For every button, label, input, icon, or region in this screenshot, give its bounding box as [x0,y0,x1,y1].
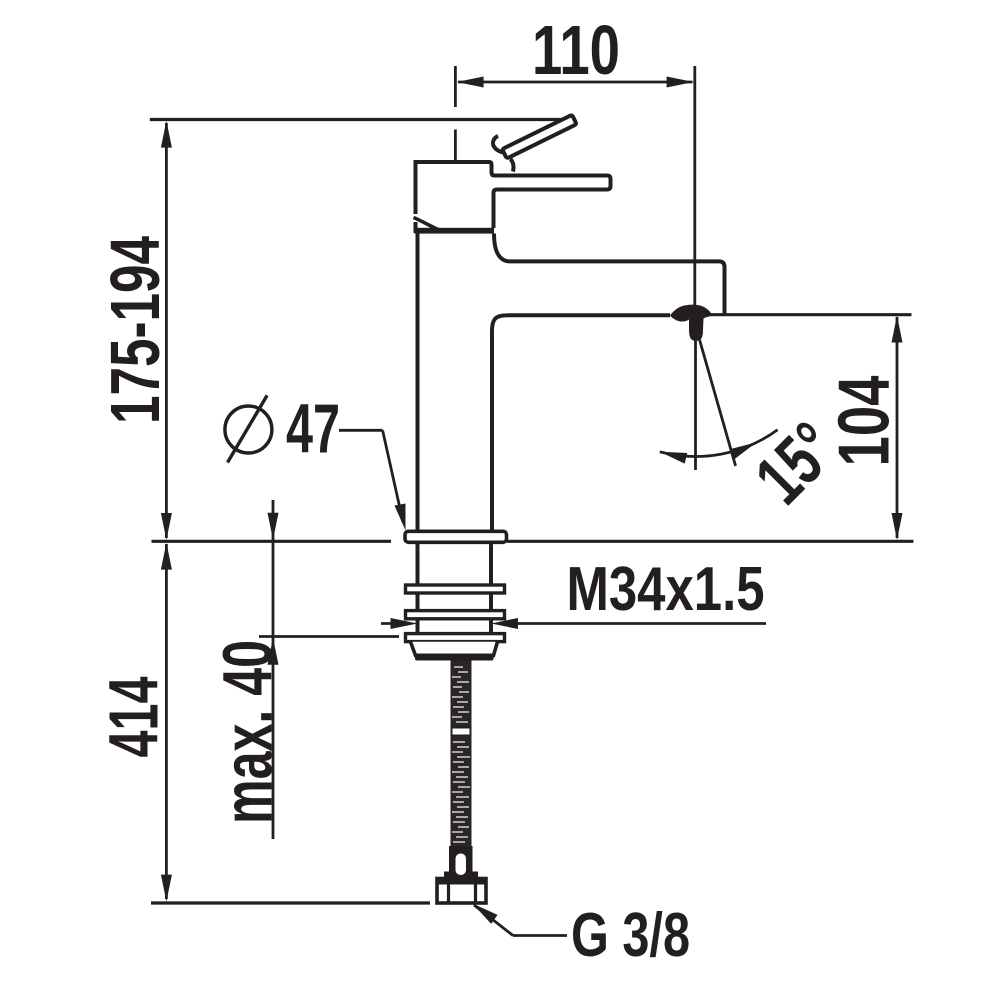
flexible hose lower section [451,736,472,846]
dimension 104 bottom arrow [892,513,903,540]
15deg swivel vertical reference line [694,321,697,470]
dimension 175-194 top arrow [161,121,172,148]
dimension 110 right extension line (spout outlet axis) [693,66,696,306]
handle joint hook curve [493,136,504,153]
faucet head block bottom thick bar [415,228,495,234]
diameter 47 leader slant [383,430,403,522]
15deg arc [660,430,778,457]
dimension 110 left extension line upper segment [454,66,457,107]
M34x1.5 left arrow line [381,622,405,625]
dimension 175-194 bottom arrow [161,513,172,540]
fixing nut bottom bar [415,654,494,661]
dimension max.40 vertical line [272,500,275,839]
dimension 414 bottom arrow [161,875,172,902]
G3/8 union nut top thick edge [437,879,486,885]
dimension 175-194 line [165,123,168,538]
fixing nut outline [411,642,498,656]
M34x1.5 left arrow [391,618,418,629]
G 3/8 leader horizontal line [513,934,567,937]
M34x1.5 right arrow line [503,622,766,625]
base flange [405,531,507,542]
dimension 110 left arrow [457,77,484,88]
diameter 47 leader arrow [395,504,406,531]
dimension max.40 lower arrow (points up to thread end tick) [268,638,279,665]
15deg arc left arrow [658,446,687,463]
shank left edge [416,542,420,640]
svg-text:G 3/8: G 3/8 [571,901,690,970]
G3/8 union nut left facet line [447,884,450,902]
faucet head block outline [416,162,611,228]
svg-text:M34x1.5: M34x1.5 [567,555,765,624]
G 3/8 leader slant line [474,905,513,936]
mounting surface line left segment [152,540,392,543]
svg-text:414: 414 [95,676,173,757]
hose end connector slot [456,854,467,876]
dimension 110 right arrow [667,77,694,88]
thread ring 1 [406,585,505,593]
flexible hose upper section [451,661,472,728]
faucet head block left edge lower [414,222,418,233]
15deg tilted jet line [700,340,736,466]
dimension max.40 upper arrow (points down to mounting surface) [268,513,279,540]
faucet head cover seam curve [414,218,455,232]
dimension 104 line [896,317,899,538]
faucet head block left edge upper [414,160,418,214]
connector right tab [472,872,478,880]
spout underside reference line to 104 dimension [710,313,912,316]
aerator outlet (solid) [670,305,713,341]
mounting surface line right segment [507,540,914,543]
spout underside line [492,315,670,331]
diameter 47 leader horizontal [339,429,383,432]
G3/8 union nut right facet line [474,884,477,902]
diameter 47 slash [228,395,268,462]
column left edge [416,234,420,532]
thread ring 3 [406,634,505,642]
thread ring 2 [406,611,505,619]
spout upper outline [494,234,725,314]
dimension 110 line [458,81,693,84]
flexible hose joint [452,728,471,736]
top reference line (overall height datum at handle top) [150,118,561,121]
shank right edge [489,542,493,640]
dimension 110 left extension line lower segment [454,130,457,161]
diameter 47 circle symbol [225,406,272,453]
bottom reference line (hose end datum) [151,901,430,904]
hose end connector body [449,846,473,879]
svg-text:47: 47 [286,390,340,468]
dimension max.40 tick line at thread end [259,635,399,638]
G3/8 union nut [437,879,486,904]
G 3/8 leader arrow [469,899,497,924]
connector left tab [444,872,450,880]
15deg arc right arrow [730,437,759,459]
svg-text:110: 110 [532,11,620,89]
svg-text:max. 40: max. 40 [209,640,287,824]
svg-text:175-194: 175-194 [96,236,174,424]
dimension 414 top arrow [161,543,172,570]
M34x1.5 right arrow [491,618,518,629]
column right edge [490,330,494,532]
dimension 414 line [165,544,168,899]
handle joint lower tick [511,159,514,172]
handle lever (raised position) [503,116,576,158]
dimension 104 top arrow [892,316,903,343]
